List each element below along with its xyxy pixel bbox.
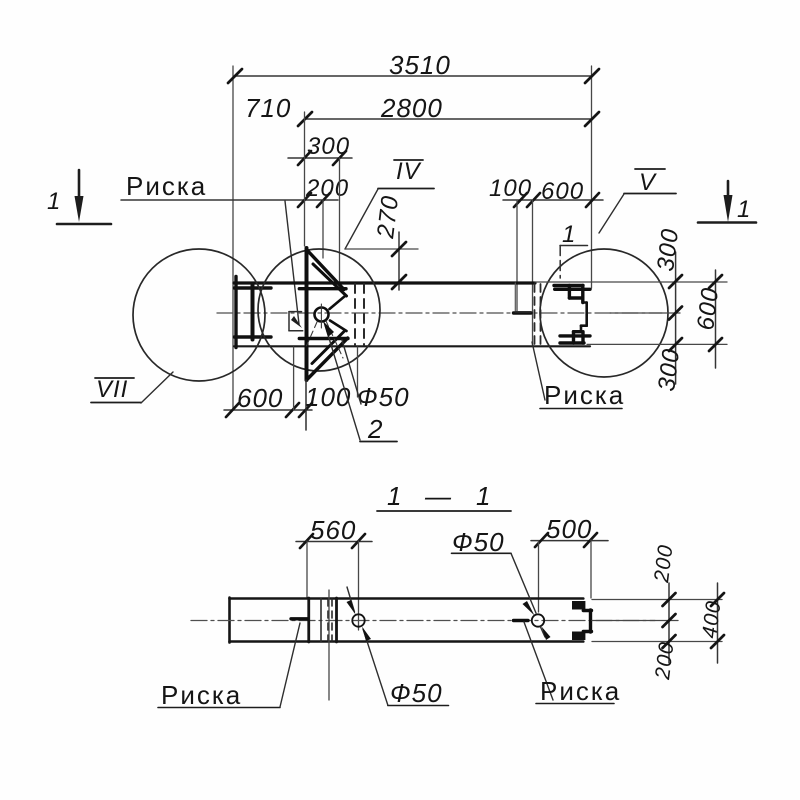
dim 560 ticks xyxy=(300,534,365,548)
section partition thick right xyxy=(335,598,338,642)
lifting loop 2 top chord xyxy=(299,287,346,290)
section F50 bottom underline xyxy=(388,705,449,707)
section mark 1 bent line xyxy=(560,245,588,247)
label V overline xyxy=(635,168,665,170)
extension line x532 xyxy=(532,200,534,345)
svg-text:1: 1 xyxy=(387,481,402,511)
beam bottom edge xyxy=(234,345,590,347)
dim 270 ticks xyxy=(392,242,406,289)
label 2 underline xyxy=(360,441,397,443)
section F50 top leader arrowhead xyxy=(523,601,535,616)
svg-text:560: 560 xyxy=(310,515,356,545)
section dim outer vertical 400 xyxy=(717,583,719,663)
dim 3510 ticks xyxy=(228,69,599,83)
riska leader diagonal to notch xyxy=(285,201,299,324)
section centerline xyxy=(191,620,655,622)
section right end top tab xyxy=(572,601,585,610)
bottom dim ticks xyxy=(226,403,312,417)
section Riska left leader xyxy=(280,623,300,707)
svg-text:Ф50: Ф50 xyxy=(390,678,443,708)
svg-text:2: 2 xyxy=(367,414,383,444)
svg-text:200: 200 xyxy=(651,640,679,682)
svg-text:Ф50: Ф50 xyxy=(357,382,410,412)
label VII leader xyxy=(141,372,173,403)
dim 100-600 top line xyxy=(503,199,603,201)
dim 3510 line xyxy=(233,66,592,410)
svg-text:600: 600 xyxy=(692,286,724,332)
riska notch left xyxy=(289,312,303,331)
right end step horizontal xyxy=(515,311,531,313)
svg-text:2800: 2800 xyxy=(380,93,443,123)
label V underline xyxy=(624,193,676,195)
section partition thin xyxy=(320,598,322,642)
extension line x339 xyxy=(339,158,341,285)
dim 270 extension top xyxy=(345,248,418,250)
section right end bottom tab xyxy=(572,632,585,641)
dim 500 line xyxy=(531,540,608,542)
lifting loop right apex upper xyxy=(330,296,346,309)
right dim outer ticks xyxy=(709,275,722,351)
detail circle middle xyxy=(258,249,380,371)
section Riska right leader xyxy=(524,622,553,700)
label Riska top-right underline xyxy=(540,408,622,410)
section Riska left underline xyxy=(158,707,280,709)
dim 500 ticks xyxy=(535,533,597,547)
right end step vertical xyxy=(514,283,516,311)
label VII underline xyxy=(91,402,141,404)
lifting loop 2 vertical edge xyxy=(305,248,309,380)
dim 560 extensions xyxy=(306,541,308,598)
svg-text:IV: IV xyxy=(396,158,422,185)
dim 560 line xyxy=(296,541,372,543)
svg-text:3510: 3510 xyxy=(389,50,451,80)
extension line x517 xyxy=(516,200,518,311)
extension x293 xyxy=(293,347,295,410)
loop vertical extended to dim xyxy=(305,380,307,430)
svg-text:Риска: Риска xyxy=(126,171,207,201)
label IV overline xyxy=(394,159,423,161)
section Riska right underline xyxy=(536,703,614,705)
svg-text:1: 1 xyxy=(476,481,491,511)
section right end bracket xyxy=(583,610,591,632)
label 2 leader arrowhead xyxy=(323,321,334,337)
svg-text:200: 200 xyxy=(305,175,349,202)
section hole right xyxy=(532,614,544,626)
section F50 bottom leader xyxy=(363,629,388,705)
svg-text:1: 1 xyxy=(737,196,751,223)
section partition axis xyxy=(328,590,330,700)
label Riska top-right leader xyxy=(532,342,545,400)
dim 100-600 ticks xyxy=(514,193,599,207)
right end plate top tab xyxy=(554,286,590,303)
lifting loop right apex lower xyxy=(330,321,347,332)
svg-text:—: — xyxy=(424,481,452,511)
lifting loop 2 top diagonal outer xyxy=(307,250,345,290)
section hole left xyxy=(352,614,364,626)
dim 2800 line xyxy=(305,118,592,120)
section right ext bottom xyxy=(592,641,722,643)
section F50 bottom leader tail xyxy=(347,587,355,612)
section title underline xyxy=(377,510,511,512)
svg-text:300: 300 xyxy=(307,133,350,160)
beam centerline xyxy=(217,312,662,314)
right extension line bottom xyxy=(587,343,727,345)
left end cap channel xyxy=(235,277,272,348)
svg-text:Риска: Риска xyxy=(544,380,625,410)
svg-text:300: 300 xyxy=(652,227,684,273)
loop hidden dashes xyxy=(306,322,317,347)
right end riska mark xyxy=(514,311,532,314)
section F50 top label underline xyxy=(452,552,512,554)
dim 200 line with riska leader horizontal xyxy=(121,199,338,201)
section partition thick left xyxy=(307,598,310,642)
section riska mark left xyxy=(291,617,308,620)
svg-text:Риска: Риска xyxy=(161,680,242,710)
section beam outline xyxy=(230,598,584,643)
dim 270 vertical line xyxy=(398,232,400,290)
hidden diaphragm dashed verticals xyxy=(355,284,364,345)
label IV underline xyxy=(378,188,434,190)
svg-text:270: 270 xyxy=(372,194,404,241)
svg-text:500: 500 xyxy=(546,514,592,544)
right dim vertical inner 300-600-300 xyxy=(675,252,677,384)
lifting loop 2 bottom diagonal outer xyxy=(308,338,348,378)
lifting loop 2 bottom diagonal inner xyxy=(312,332,344,364)
loop hole axis vertical xyxy=(320,304,322,328)
label V leader xyxy=(599,194,624,233)
section dim inner vertical 200-200 xyxy=(668,583,670,663)
riska leader arrowhead xyxy=(291,316,302,328)
section F50 bottom arrowhead xyxy=(362,627,371,642)
right extension line middle xyxy=(610,312,680,314)
label IV leader xyxy=(345,189,378,249)
svg-text:200: 200 xyxy=(650,543,678,585)
extension line x323 xyxy=(322,200,324,258)
svg-text:1: 1 xyxy=(562,221,576,248)
section F50 top leader tail xyxy=(541,627,546,637)
detail circle VII left xyxy=(133,249,265,381)
section right ext mid xyxy=(592,620,678,622)
right end plate right step xyxy=(581,303,587,332)
section F50 top leader xyxy=(511,553,536,613)
section dim outer ticks xyxy=(711,593,724,648)
section F50 tail arrowhead xyxy=(542,627,551,641)
svg-text:600: 600 xyxy=(237,383,283,413)
loop hole circle xyxy=(315,308,329,322)
section riska mark right xyxy=(514,619,529,622)
dim 2800 ticks xyxy=(298,112,599,126)
section partition dashed pair xyxy=(328,599,332,641)
detail circle V right xyxy=(540,249,668,377)
section arrow 1 right xyxy=(698,181,756,223)
right end hidden dashed pair xyxy=(535,284,541,345)
dim 200 ticks xyxy=(298,193,330,207)
right extension line top xyxy=(535,281,727,283)
beam top edge xyxy=(234,281,535,284)
svg-text:710: 710 xyxy=(245,93,291,123)
section F50 tail arrowhead left xyxy=(347,600,356,615)
diaphragm extension below beam xyxy=(357,347,359,397)
lifting loop 2 bottom chord xyxy=(299,337,348,340)
section arrow 1 left xyxy=(47,170,111,224)
svg-text:100: 100 xyxy=(489,175,532,202)
right end plate bottom tab xyxy=(560,332,590,343)
svg-text:V: V xyxy=(639,169,657,196)
svg-text:400: 400 xyxy=(698,599,725,640)
label F50 top view leader xyxy=(342,340,361,404)
svg-text:Риска: Риска xyxy=(540,676,621,706)
dim 300 ticks xyxy=(298,151,346,165)
right dim inner ticks xyxy=(669,275,682,351)
section right ext top xyxy=(592,599,722,601)
svg-text:300: 300 xyxy=(653,347,685,393)
extension line x305 xyxy=(304,112,306,246)
svg-text:VII: VII xyxy=(96,376,128,403)
label VII overline xyxy=(95,377,134,379)
section dim inner ticks xyxy=(663,593,676,648)
bottom dim 600-100 line xyxy=(224,409,312,411)
lifting loop 2 top diagonal inner xyxy=(313,264,347,296)
right dim vertical outer 600 xyxy=(715,270,717,368)
svg-text:600: 600 xyxy=(541,178,584,205)
dim 500 extensions xyxy=(590,540,592,598)
label 2 leader xyxy=(325,325,360,440)
dim 300 line xyxy=(288,157,352,159)
svg-text:1: 1 xyxy=(47,188,61,215)
